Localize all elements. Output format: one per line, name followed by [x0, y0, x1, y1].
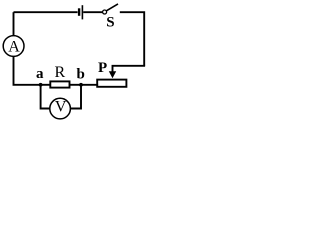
resistor R — [50, 81, 69, 87]
label P — [98, 60, 107, 76]
rheostat wiper arrow — [109, 71, 116, 78]
ammeter A — [3, 36, 24, 57]
wire battery to switch — [83, 11, 102, 13]
label S — [106, 15, 114, 31]
wire switch to top-right corner and down right side — [120, 12, 144, 66]
label a — [36, 66, 44, 82]
node b — [79, 83, 83, 87]
switch S — [103, 4, 118, 14]
wire left vertical below ammeter — [14, 56, 41, 84]
node a — [39, 83, 43, 87]
battery — [79, 5, 82, 19]
voltmeter V — [50, 98, 71, 119]
rheostat P body — [97, 80, 126, 87]
svg-text:A: A — [8, 39, 20, 56]
svg-text:a: a — [36, 66, 44, 82]
wire left vertical above ammeter — [13, 12, 15, 36]
wire elbow to rheostat wiper — [113, 66, 146, 72]
svg-text:P: P — [98, 60, 107, 76]
svg-text:S: S — [106, 15, 114, 31]
wire node a to resistor — [41, 84, 51, 86]
wire top-left horizontal — [14, 11, 78, 13]
wire resistor to node b — [70, 84, 82, 86]
label R — [55, 64, 66, 81]
svg-text:R: R — [55, 64, 66, 81]
wire node a down to voltmeter — [41, 85, 50, 109]
svg-text:V: V — [55, 98, 67, 115]
svg-text:b: b — [77, 67, 85, 83]
wire node b to rheostat — [81, 84, 98, 86]
label b — [77, 67, 85, 83]
wire voltmeter up to node b — [70, 85, 81, 109]
